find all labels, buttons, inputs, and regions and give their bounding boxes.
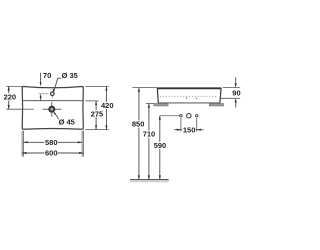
svg-text:150: 150 [183, 126, 196, 135]
svg-text:90: 90 [232, 89, 240, 98]
svg-text:710: 710 [143, 130, 156, 139]
svg-text:Ø 35: Ø 35 [62, 71, 78, 80]
svg-text:600: 600 [45, 149, 58, 158]
svg-text:580: 580 [45, 138, 58, 147]
svg-text:Ø 45: Ø 45 [59, 118, 75, 127]
svg-text:850: 850 [132, 119, 145, 128]
svg-text:220: 220 [4, 93, 17, 102]
svg-text:590: 590 [154, 141, 167, 150]
svg-text:275: 275 [91, 109, 104, 118]
svg-text:70: 70 [43, 71, 51, 80]
